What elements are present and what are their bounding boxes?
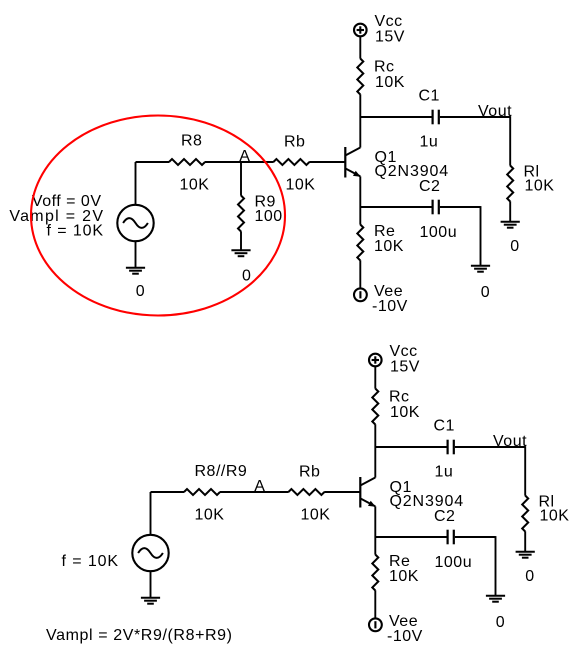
power symbol Vee (bottom) [369,618,382,631]
svg-text:C1: C1 [419,88,440,105]
svg-text:C2: C2 [434,508,455,525]
ground at C2 (top) [471,266,490,272]
ground at Rl (top) [501,222,520,228]
wire Vcc to Rc (bottom) [374,367,376,389]
ground at R9 (top) [231,250,250,256]
svg-text:0: 0 [242,267,251,284]
svg-text:10K: 10K [390,404,420,421]
voltage source V1 (bottom) [132,535,168,571]
resistor Re (bottom) [372,555,378,591]
wire source corner to R8 (top) [136,161,170,163]
svg-text:10K: 10K [301,507,331,524]
wire source to ground (top) [135,241,137,268]
wire R9 to ground (top) [240,231,242,250]
svg-text:Rb: Rb [284,134,305,151]
svg-text:Rc: Rc [389,389,410,406]
wire C1 to Vout (top) [440,116,510,118]
wire C2 to corner (top) [440,206,481,208]
svg-text:15V: 15V [375,29,405,46]
wire Re to Vee (top) [359,260,361,288]
wire Vout down to Rl (top) [509,116,511,166]
resistor Rb (top) [273,159,309,165]
transistor Q1 (top) [345,147,360,178]
power symbol Vee (top) [354,288,367,301]
voltage source V1 (top) [117,205,153,241]
wire C2 corner to ground (bottom) [495,536,497,596]
svg-text:100u: 100u [435,554,473,571]
wire Rc to collector (bottom) [374,424,376,477]
svg-text:10K: 10K [525,178,555,195]
svg-text:Rc: Rc [374,59,395,76]
wire Rb to base (bottom) [324,491,360,493]
capacitor C2 (bottom) [448,530,454,545]
svg-text:C1: C1 [434,418,455,435]
wire Re to Vee (bottom) [374,590,376,618]
svg-text:0: 0 [481,284,490,301]
svg-text:0: 0 [525,568,534,585]
power symbol Vcc (top) [354,24,367,37]
wire C2 corner to ground (top) [480,206,482,266]
svg-text:-10V: -10V [387,628,423,645]
wire Rl to ground (bottom) [524,531,526,551]
resistor R8//R9 (bottom) [184,489,220,495]
svg-text:10K: 10K [195,507,225,524]
wire Rc to collector (top) [359,94,361,147]
svg-text:Vout: Vout [493,433,527,450]
wire collector node to C1 (top) [360,116,431,118]
wire R8//R9 through node A to Rb (bottom) [220,491,289,493]
svg-text:f = 10K: f = 10K [62,553,119,570]
wire Rl to ground (top) [509,201,511,221]
svg-text:Vcc: Vcc [375,13,403,30]
transistor Q1 (bottom) [360,477,375,508]
svg-text:Vcc: Vcc [390,343,418,360]
svg-text:0: 0 [510,238,519,255]
ground at source (top) [126,268,145,274]
svg-text:10K: 10K [375,74,405,91]
svg-text:10K: 10K [180,177,210,194]
resistor Re (top) [357,225,363,261]
svg-text:1u: 1u [435,464,454,481]
wire collector node to C1 (bottom) [375,446,446,448]
svg-text:-10V: -10V [372,298,408,315]
svg-text:Rb: Rb [299,464,320,481]
svg-text:C2: C2 [419,178,440,195]
resistor Rl (top) [507,166,513,202]
wire emitter down (top) [359,176,361,207]
svg-text:Vampl = 2V*R9/(R8+R9): Vampl = 2V*R9/(R8+R9) [46,627,233,644]
resistor Rb (bottom) [288,489,324,495]
wire emitter node to Re (bottom) [374,537,376,555]
svg-text:R8//R9: R8//R9 [195,463,248,480]
resistor Rc (top) [357,59,363,95]
ground at source (bottom) [141,598,160,604]
resistor R9 (top) [238,196,244,232]
wire R8 through node A to Rb (top) [205,161,274,163]
wire C1 to Vout (bottom) [455,446,525,448]
power symbol Vcc (bottom) [369,354,382,367]
wire emitter node to C2 (top) [360,206,431,208]
svg-text:10K: 10K [540,508,570,525]
wire node A down to R9 (top) [240,162,242,196]
svg-text:10K: 10K [286,177,316,194]
svg-text:100u: 100u [420,224,458,241]
wire source corner to R8//R9 (bottom) [151,491,185,493]
wire down to source (top) [135,162,137,205]
svg-text:10K: 10K [374,238,404,255]
wire C2 to corner (bottom) [455,536,496,538]
svg-text:A: A [254,478,265,495]
resistor Rl (bottom) [522,496,528,532]
wire emitter down (bottom) [374,506,376,537]
resistor Rc (bottom) [372,389,378,425]
wire emitter node to C2 (bottom) [375,536,446,538]
svg-text:0: 0 [496,614,505,631]
ground at C2 (bottom) [486,596,505,602]
svg-text:100: 100 [255,208,283,225]
wire down to source (bottom) [150,492,152,535]
red highlight ellipse [31,116,285,316]
ground at Rl (bottom) [516,552,535,558]
svg-text:15V: 15V [390,359,420,376]
capacitor C1 (top) [433,110,439,125]
svg-text:0: 0 [136,283,145,300]
resistor R8 (top) [169,159,205,165]
wire Vcc to Rc (top) [359,37,361,59]
capacitor C2 (top) [433,200,439,215]
svg-text:1u: 1u [420,134,439,151]
capacitor C1 (bottom) [448,440,454,455]
svg-text:f = 10K: f = 10K [47,222,104,239]
wire emitter node to Re (top) [359,207,361,225]
svg-text:10K: 10K [389,568,419,585]
svg-text:Vout: Vout [478,103,512,120]
svg-text:R8: R8 [181,133,202,150]
wire source to ground (bottom) [150,571,152,598]
wire Rb to base (top) [309,161,345,163]
wire Vout down to Rl (bottom) [524,446,526,496]
